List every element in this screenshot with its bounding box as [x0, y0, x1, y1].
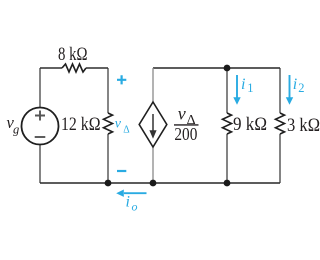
svg-text:i: i — [293, 76, 297, 93]
current arrow i2 (cyan) — [289, 75, 291, 98]
junction dot at diamond bottom — [150, 180, 157, 187]
junction dot at 12k bottom — [105, 180, 112, 187]
wire 3k branch top — [279, 68, 281, 113]
voltage source vg circle — [22, 108, 59, 145]
voltage source plus sign — [35, 111, 45, 121]
svg-text:12 kΩ: 12 kΩ — [61, 115, 101, 135]
dependent source top lead — [152, 68, 154, 102]
wire 9k branch top — [226, 68, 228, 113]
svg-text:i: i — [126, 194, 130, 211]
bottom wire — [40, 182, 280, 184]
svg-text:2: 2 — [298, 81, 304, 95]
svg-text:g: g — [13, 123, 19, 137]
voltage source minus sign — [35, 136, 46, 138]
resistor 9 kOhm zigzag — [223, 113, 232, 134]
resistor 12 kOhm zigzag — [104, 113, 113, 134]
wire 12k branch top — [107, 68, 109, 113]
wire top-left segment — [40, 67, 62, 69]
svg-text:1: 1 — [247, 81, 253, 95]
current arrow i1 (cyan) — [236, 75, 238, 98]
junction dot at 9k top — [224, 65, 231, 72]
wire 9k branch bottom — [226, 134, 228, 183]
svg-text:Δ: Δ — [123, 124, 130, 135]
dependent source bottom lead — [152, 147, 154, 183]
wire 3k branch bottom — [279, 134, 281, 183]
arrow inside diamond — [152, 114, 154, 131]
wire 12k branch bottom — [107, 134, 109, 183]
wire top-left segment 2 — [86, 67, 108, 69]
svg-text:8 kΩ: 8 kΩ — [58, 45, 88, 65]
wire top-right — [153, 67, 280, 69]
dependent current source diamond — [139, 102, 167, 147]
wire left vertical top (vg top lead) — [39, 68, 41, 108]
svg-text:i: i — [241, 76, 245, 93]
junction dot at 9k bottom — [224, 180, 231, 187]
svg-text:v: v — [178, 104, 186, 124]
minus polarity mark (cyan) — [117, 170, 126, 172]
svg-text:o: o — [132, 200, 138, 214]
plus polarity mark (cyan) — [117, 75, 126, 84]
svg-text:v: v — [115, 117, 122, 132]
fraction bar — [174, 124, 199, 126]
resistor 3 kOhm zigzag — [276, 113, 285, 134]
current arrow io (cyan) — [124, 192, 147, 194]
svg-text:200: 200 — [174, 124, 197, 144]
svg-text:9 kΩ: 9 kΩ — [233, 115, 267, 135]
svg-text:3 kΩ: 3 kΩ — [287, 116, 320, 136]
wire left vertical bottom (vg bottom lead) — [39, 145, 41, 184]
resistor 8 kOhm zigzag — [62, 64, 86, 72]
